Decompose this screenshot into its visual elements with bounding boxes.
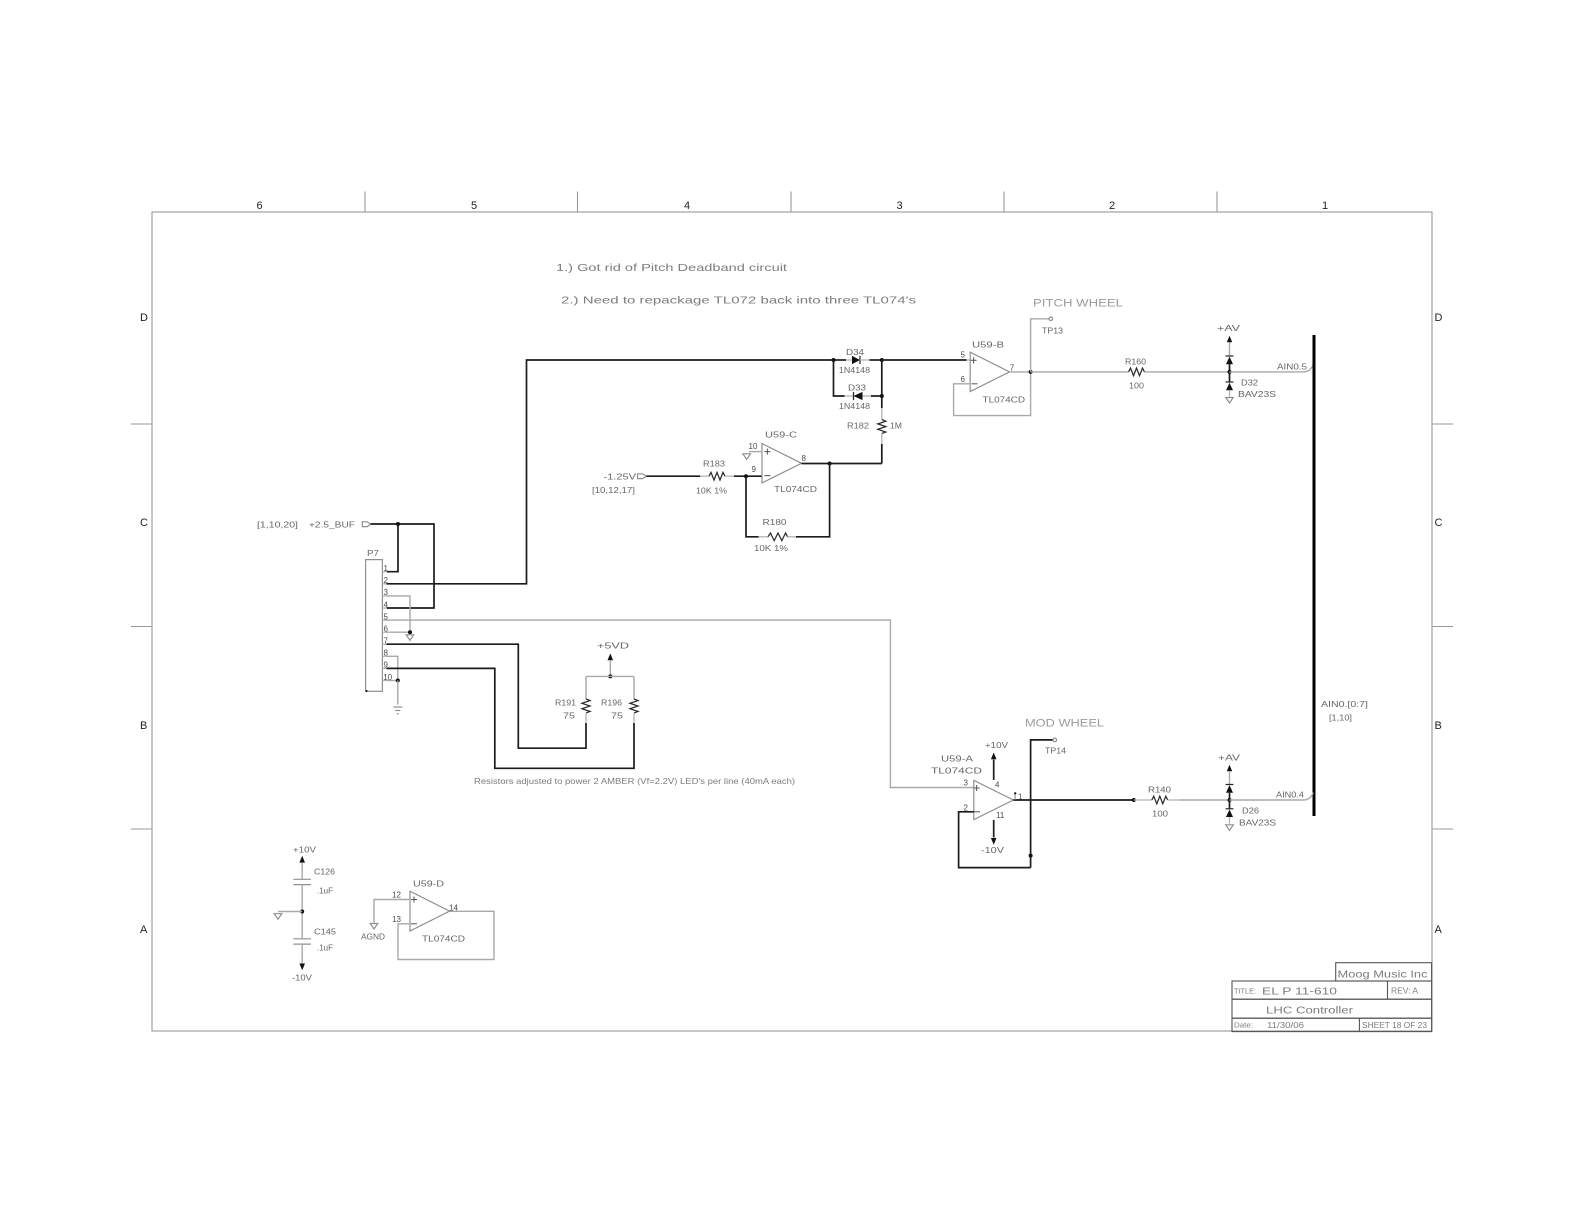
wire R140 to D26 [1180, 799, 1230, 801]
wire -1.25V to R183 [647, 475, 701, 477]
resistor R196 7.5 [633, 676, 635, 699]
node +5VD junction [608, 674, 612, 678]
svg-text:+AV: +AV [1217, 323, 1240, 333]
svg-text:-10V: -10V [981, 845, 1004, 855]
wire D33 branch [834, 360, 845, 396]
svg-text:R180: R180 [763, 517, 787, 527]
node D26 junction [1228, 798, 1232, 802]
ground agnd arrow at pin 10 [743, 454, 751, 460]
op-amp U59-A TL074CD [974, 780, 1014, 819]
capacitor C145 .1uF [293, 938, 311, 940]
svg-text:R140: R140 [1148, 785, 1171, 795]
op-amp U59-D TL074CD [410, 891, 450, 931]
node +2.5_BUF junction [396, 522, 400, 526]
svg-text:10K 1%: 10K 1% [754, 543, 788, 553]
svg-text:8: 8 [802, 454, 807, 463]
svg-text:1.) Got rid of Pitch Deadband: 1.) Got rid of Pitch Deadband circuit [556, 262, 787, 274]
wire U59-D feedback [398, 911, 494, 959]
svg-text:.1uF: .1uF [317, 943, 333, 953]
bus AIN0.[0:7] [1313, 335, 1316, 816]
svg-text:AIN0.5: AIN0.5 [1277, 362, 1307, 372]
op-amp U59-B TL074CD [970, 352, 1009, 391]
svg-text:C: C [1435, 517, 1443, 529]
diode D26 BAV23S upper [1226, 784, 1234, 786]
svg-text:1M: 1M [890, 421, 902, 431]
wire AIN0.4 to bus [1230, 793, 1314, 800]
svg-text:75: 75 [611, 711, 623, 721]
svg-text:TITLE:: TITLE: [1234, 989, 1256, 996]
svg-text:C145: C145 [314, 927, 336, 937]
svg-text:4: 4 [384, 600, 389, 609]
svg-text:11: 11 [996, 811, 1005, 820]
ground symbol at P7 pin 10 [393, 706, 402, 708]
test point TP13 [1031, 319, 1049, 372]
test point TP14 [1031, 740, 1053, 868]
svg-text:1N4148: 1N4148 [839, 401, 870, 411]
ground arrow below D32 [1226, 398, 1234, 404]
svg-text:TP14: TP14 [1045, 746, 1066, 756]
resistor R183 10K 1% [700, 475, 709, 477]
svg-text:R182: R182 [847, 421, 869, 431]
wire U59-B feedback [954, 372, 1031, 416]
svg-text:10: 10 [749, 442, 758, 451]
svg-text:EL P 11-610: EL P 11-610 [1262, 986, 1337, 998]
wire pin7 to R191 [387, 644, 587, 748]
wire pin3 to agnd arrow [387, 596, 411, 632]
wire caps midpoint [301, 885, 303, 939]
svg-text:2: 2 [1109, 200, 1115, 212]
svg-text:P7: P7 [367, 548, 379, 558]
pin 4 [382, 607, 387, 609]
port +2.5_BUF [362, 522, 370, 527]
svg-text:C126: C126 [314, 867, 335, 877]
svg-text:TL074CD: TL074CD [422, 934, 465, 944]
svg-text:BAV23S: BAV23S [1239, 818, 1276, 828]
svg-text:[1,10]: [1,10] [1329, 713, 1352, 723]
svg-text:-10V: -10V [292, 973, 312, 983]
svg-text:9: 9 [752, 465, 757, 474]
svg-text:Date:: Date: [1234, 1023, 1253, 1030]
svg-text:REV: A: REV: A [1391, 986, 1418, 996]
pin 8 [382, 655, 387, 657]
pin 10 stub to agnd [749, 451, 762, 453]
pin 6 [382, 631, 387, 633]
wire R191/R196 tops [586, 675, 634, 677]
svg-text:3: 3 [897, 200, 903, 212]
svg-text:R183: R183 [703, 459, 725, 469]
svg-text:AGND: AGND [361, 932, 385, 942]
node D32 junction [1228, 370, 1232, 374]
resistor R182 1M [881, 396, 883, 408]
svg-text:100: 100 [1152, 809, 1168, 819]
wire U59-C output [802, 463, 882, 465]
border frame is here (not labelled further) [131, 192, 1453, 1032]
node D33 cathode junction [880, 394, 884, 398]
svg-text:7: 7 [1010, 364, 1015, 373]
svg-text:3: 3 [964, 779, 969, 788]
svg-text:5: 5 [471, 200, 477, 212]
wire pin8 [387, 656, 398, 680]
svg-text:TL074CD: TL074CD [983, 395, 1026, 405]
pin 10 [382, 680, 387, 682]
svg-text:+10V: +10V [985, 740, 1008, 750]
svg-text:1N4148: 1N4148 [839, 365, 870, 375]
diode D26 BAV23S lower [1229, 800, 1231, 809]
title block [1336, 963, 1432, 981]
svg-text:4: 4 [995, 781, 1000, 790]
wire U59-A output [1013, 799, 1134, 801]
svg-text:+10V: +10V [293, 845, 316, 855]
svg-text:D34: D34 [846, 347, 864, 357]
svg-text:MOD WHEEL: MOD WHEEL [1025, 718, 1104, 730]
pin 2 [382, 583, 387, 585]
svg-text:TL074CD: TL074CD [774, 484, 817, 494]
op-amp U59-C TL074CD [762, 444, 802, 483]
wire U59-A feedback [959, 812, 1031, 868]
wire pin2 to diode net [387, 360, 834, 584]
ground agnd arrow at caps [274, 914, 282, 920]
svg-text:U59-D: U59-D [413, 879, 444, 889]
wire R180 feedback [746, 476, 759, 537]
svg-text:LHC Controller: LHC Controller [1266, 1005, 1354, 1017]
svg-text:100: 100 [1129, 381, 1144, 391]
svg-text:75: 75 [563, 711, 575, 721]
svg-text:Resistors adjusted to power 2: Resistors adjusted to power 2 AMBER (Vf=… [474, 776, 795, 786]
diode D32 BAV23S lower [1229, 372, 1231, 382]
svg-text:Moog Music Inc: Moog Music Inc [1338, 969, 1428, 981]
power -10V (cap) [301, 944, 303, 963]
wire AIN0.5 to bus [1230, 365, 1314, 372]
svg-text:12: 12 [392, 891, 401, 900]
svg-text:C: C [140, 517, 148, 529]
capacitor C126 .1uF [293, 878, 311, 880]
pin 1 [382, 571, 387, 573]
svg-text:B: B [140, 720, 147, 732]
svg-text:+2.5_BUF: +2.5_BUF [309, 520, 355, 530]
ground agnd arrow at P7 pins 3,6 [406, 635, 414, 641]
svg-text:R196: R196 [601, 698, 622, 708]
svg-text:AIN0.4: AIN0.4 [1276, 790, 1304, 800]
wire R183 to inverting input [734, 475, 762, 477]
wire R182 to U59-C output [881, 444, 883, 464]
svg-text:.1uF: .1uF [317, 886, 333, 896]
wire pin6 [387, 631, 411, 633]
port -1.25V [638, 474, 647, 479]
svg-text:U59-A: U59-A [941, 754, 973, 764]
svg-text:A: A [1435, 924, 1443, 936]
svg-text:13: 13 [392, 915, 401, 924]
svg-text:11/30/06: 11/30/06 [1267, 1020, 1304, 1030]
diode D34 1N4148 [834, 359, 847, 361]
pin 5 [382, 619, 387, 621]
svg-text:R191: R191 [555, 698, 576, 708]
wire R160 to D32 [1145, 371, 1230, 373]
wire pin10 to ground [387, 680, 398, 682]
connector P7 [366, 560, 383, 692]
svg-text:4: 4 [684, 200, 690, 212]
svg-text:+5VD: +5VD [597, 641, 629, 651]
svg-text:TP13: TP13 [1042, 326, 1063, 336]
resistor R180 10K 1% [759, 536, 769, 538]
node D34 anode junction [832, 358, 836, 362]
svg-text:D: D [140, 312, 148, 324]
svg-text:R160: R160 [1125, 357, 1146, 367]
svg-text:D: D [1435, 312, 1443, 324]
diode D32 BAV23S upper [1226, 355, 1234, 357]
svg-text:[1,10,20]: [1,10,20] [257, 520, 298, 530]
svg-text:2.) Need to repackage TL072 b: 2.) Need to repackage TL072 back into th… [561, 295, 916, 307]
wire pin 12 to AGND [374, 900, 410, 923]
wire net +2.5_BUF [371, 524, 434, 608]
svg-text:D33: D33 [848, 383, 866, 393]
svg-text:-1.25V: -1.25V [604, 472, 637, 482]
svg-text:TL074CD: TL074CD [931, 766, 982, 776]
svg-text:6: 6 [961, 375, 966, 384]
svg-text:SHEET 18 OF 23: SHEET 18 OF 23 [1362, 1021, 1428, 1030]
wire U59-B output [1010, 371, 1031, 373]
svg-text:1: 1 [1322, 200, 1328, 212]
svg-text:[10,12,17]: [10,12,17] [592, 485, 635, 495]
pin 3 [382, 595, 387, 597]
svg-text:5: 5 [961, 351, 966, 360]
svg-text:+AV: +AV [1218, 753, 1240, 763]
svg-text:6: 6 [257, 200, 263, 212]
wire pin5 to U59-A input [387, 620, 974, 787]
svg-text:PITCH WHEEL: PITCH WHEEL [1033, 298, 1123, 310]
resistor R160 100 [1129, 368, 1145, 376]
wire U59-B noninverting input [882, 359, 967, 361]
node D34 cathode junction [880, 358, 884, 362]
diode D33 1N4148 [854, 392, 863, 400]
node U59-C inverting junction [744, 474, 748, 478]
svg-text:D26: D26 [1242, 806, 1259, 816]
ground agnd arrow AGND [370, 924, 378, 930]
node pins 3-6 junction [408, 630, 412, 634]
pin 7 [382, 643, 387, 645]
svg-text:1: 1 [384, 564, 389, 573]
pin 9 [382, 667, 387, 669]
wire pin9 to R196 [387, 668, 635, 768]
svg-text:BAV23S: BAV23S [1238, 389, 1276, 399]
resistor R140 100 [1134, 799, 1152, 801]
svg-text:AIN0.[0:7]: AIN0.[0:7] [1321, 699, 1368, 709]
svg-text:10K 1%: 10K 1% [696, 486, 727, 496]
resistor R191 7.5 [585, 676, 587, 699]
svg-text:B: B [1435, 720, 1442, 732]
svg-text:D32: D32 [1241, 378, 1258, 388]
ground arrow below D26 [1226, 825, 1234, 831]
svg-text:A: A [140, 924, 148, 936]
svg-text:U59-C: U59-C [765, 430, 797, 440]
svg-text:U59-B: U59-B [972, 340, 1004, 350]
